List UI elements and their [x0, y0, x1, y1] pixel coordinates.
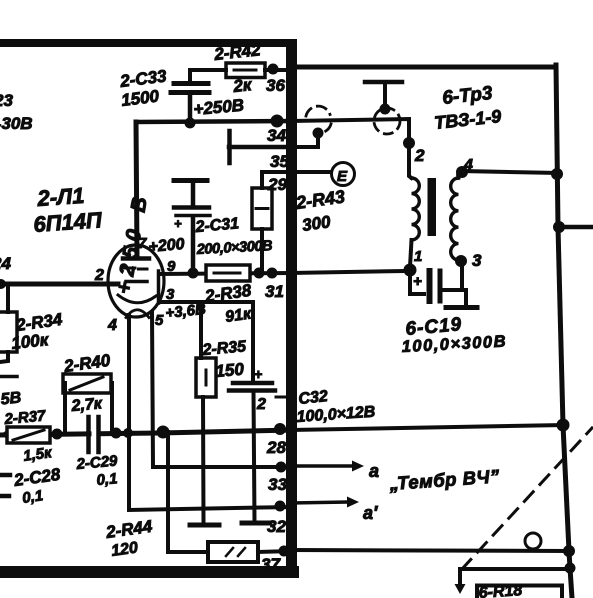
- svg-text:5: 5: [155, 312, 164, 329]
- svg-text:+: +: [254, 366, 262, 382]
- svg-text:а′: а′: [363, 503, 378, 523]
- wire top supply (outside, y=67): [291, 65, 556, 70]
- secondary winding: [451, 178, 459, 260]
- cathode arc: [118, 295, 156, 303]
- wire to R18: [460, 569, 570, 584]
- tube V1 2-L1 6P14P: [94, 122, 176, 334]
- resistor R44: [104, 432, 291, 562]
- shield plate to pin 35: [229, 131, 291, 163]
- node bus-pin37 wire: [563, 545, 575, 557]
- wire grid input (pin 2): [0, 282, 118, 287]
- wire cathode (y=302): [159, 302, 253, 380]
- capacitor C19: [401, 261, 507, 356]
- svg-text:3: 3: [472, 251, 482, 270]
- node bus-C32 wire: [557, 419, 570, 432]
- svg-text:29: 29: [267, 175, 287, 194]
- svg-text:0,1: 0,1: [21, 487, 44, 507]
- svg-text:34: 34: [267, 126, 286, 145]
- svg-text:28: 28: [266, 438, 286, 457]
- node R37-R40: [52, 429, 63, 440]
- capacitor C33: [118, 66, 209, 124]
- svg-text:6П14П: 6П14П: [33, 207, 104, 237]
- node secondary pin4: [456, 166, 468, 178]
- bottom dome: [126, 310, 149, 318]
- suppressor tie bar: [157, 271, 161, 303]
- ground bar A: [190, 523, 219, 528]
- svg-text:23: 23: [0, 91, 13, 110]
- test point E: [291, 163, 355, 186]
- core: [428, 178, 437, 236]
- wire bias rail (pin 28, y=433): [0, 430, 291, 435]
- arrow a' (pin 32): [291, 497, 378, 524]
- block border top: [0, 39, 296, 47]
- ground C19: [446, 305, 477, 310]
- wire heater pin5 to pin 33: [152, 313, 291, 467]
- primary winding: [409, 143, 412, 178]
- connector ring (small circle): [525, 533, 541, 549]
- node R43-screen: [254, 268, 265, 279]
- capacitor C32: [229, 366, 376, 521]
- arrowhead down: [455, 584, 466, 594]
- dashed boundary diagonal: [462, 428, 592, 569]
- wire connector A to pin35: [291, 133, 318, 147]
- svg-text:͵5В: ͵5В: [0, 389, 22, 409]
- svg-text:2: 2: [414, 146, 425, 165]
- svg-text:2к: 2к: [231, 75, 253, 96]
- svg-text:300: 300: [301, 212, 332, 235]
- svg-text:32: 32: [267, 517, 286, 536]
- envelope: [108, 245, 164, 317]
- resistor R37: [3, 407, 54, 465]
- node bus-right stub: [553, 221, 565, 233]
- node heater pin4 crossing: [123, 428, 133, 438]
- node screen-border: [267, 268, 278, 279]
- svg-text:9: 9: [167, 258, 176, 275]
- node bus-pin4: [551, 168, 563, 180]
- svg-text:+: +: [413, 273, 422, 290]
- connector circle B (dashed): [374, 108, 400, 134]
- block border right: [286, 39, 297, 578]
- capacitor C28: [0, 465, 62, 507]
- node rail-border: [271, 115, 284, 128]
- node secondary pin3: [455, 255, 467, 267]
- svg-text:24: 24: [0, 254, 11, 273]
- transformer Tr3 TVZ-1-9: [403, 83, 557, 277]
- resistor R38: [203, 265, 253, 326]
- svg-text:100к: 100к: [10, 330, 50, 353]
- node primary pin2: [403, 137, 415, 149]
- wire pin31 to transformer pin1: [291, 271, 404, 273]
- wire pin28 to bus (C32 net): [291, 425, 563, 430]
- grid g dashes row2: [126, 280, 147, 284]
- capacitor C31: [148, 181, 273, 273]
- ground bar B: [242, 521, 270, 526]
- anode wire (+250V riser): [136, 122, 137, 257]
- node rail-border: [274, 423, 286, 435]
- resistor R40 bridge: [62, 351, 112, 433]
- svg-text:2-Л1: 2-Л1: [36, 183, 86, 211]
- svg-text:33: 33: [268, 475, 287, 494]
- shield bar above connector B: [365, 80, 402, 85]
- connector circle A (dashed, partial): [306, 106, 331, 132]
- svg-text:150: 150: [215, 360, 245, 381]
- node bus-R18 wire: [565, 563, 576, 574]
- arrow a (pin 33): [291, 461, 379, 482]
- resistor R42: [190, 40, 291, 96]
- wire pin37 to bus: [291, 550, 569, 551]
- node primary pin1: [404, 264, 417, 277]
- wire stub to right edge: [559, 225, 593, 230]
- anode plate: [123, 256, 149, 261]
- svg-text:4: 4: [107, 317, 117, 334]
- wire heater pin4 to pin 32: [129, 315, 291, 510]
- svg-text:С32: С32: [298, 388, 329, 408]
- svg-text:1: 1: [414, 248, 422, 265]
- resistor R18 box: [477, 586, 562, 598]
- node pin5-R44 junction: [157, 426, 170, 439]
- wire anode out (pin34 to transformer): [291, 119, 409, 143]
- svg-text:2: 2: [256, 396, 266, 413]
- node connector B pin: [380, 104, 391, 115]
- svg-text:35: 35: [270, 152, 289, 171]
- resistor R35: [196, 302, 248, 522]
- node rail-C33: [185, 118, 196, 129]
- svg-text:37: 37: [261, 555, 281, 574]
- wire right vertical bus: [556, 65, 572, 598]
- wire screen g2 (y=273): [159, 273, 291, 274]
- wire +250V rail: [136, 121, 291, 122]
- arrowhead left edge: [0, 429, 9, 440]
- node pin33-border: [276, 462, 287, 473]
- wire pin4 to bus: [462, 171, 557, 173]
- grid g dashes row1: [124, 268, 147, 269]
- node C29-R40: [111, 428, 122, 439]
- svg-text:а: а: [369, 461, 379, 481]
- capacitor C29: [75, 417, 119, 489]
- block border bottom: [0, 566, 299, 578]
- svg-text:31: 31: [265, 282, 284, 301]
- node connector A pin: [313, 128, 324, 139]
- node C31-screen: [188, 268, 199, 279]
- svg-text:6-R18: 6-R18: [478, 582, 523, 598]
- svg-text:Е: Е: [337, 168, 348, 185]
- svg-text:0,1: 0,1: [96, 470, 118, 489]
- svg-text:2: 2: [94, 267, 104, 284]
- node pin32-border: [275, 501, 286, 512]
- svg-text:+: +: [174, 216, 182, 231]
- svg-text:2,7к: 2,7к: [70, 395, 104, 415]
- svg-text:36: 36: [266, 76, 285, 95]
- resistor R34: [0, 284, 64, 377]
- svg-text:ᴗ30В: ᴗ30В: [0, 114, 33, 133]
- resistor R43: [252, 172, 346, 273]
